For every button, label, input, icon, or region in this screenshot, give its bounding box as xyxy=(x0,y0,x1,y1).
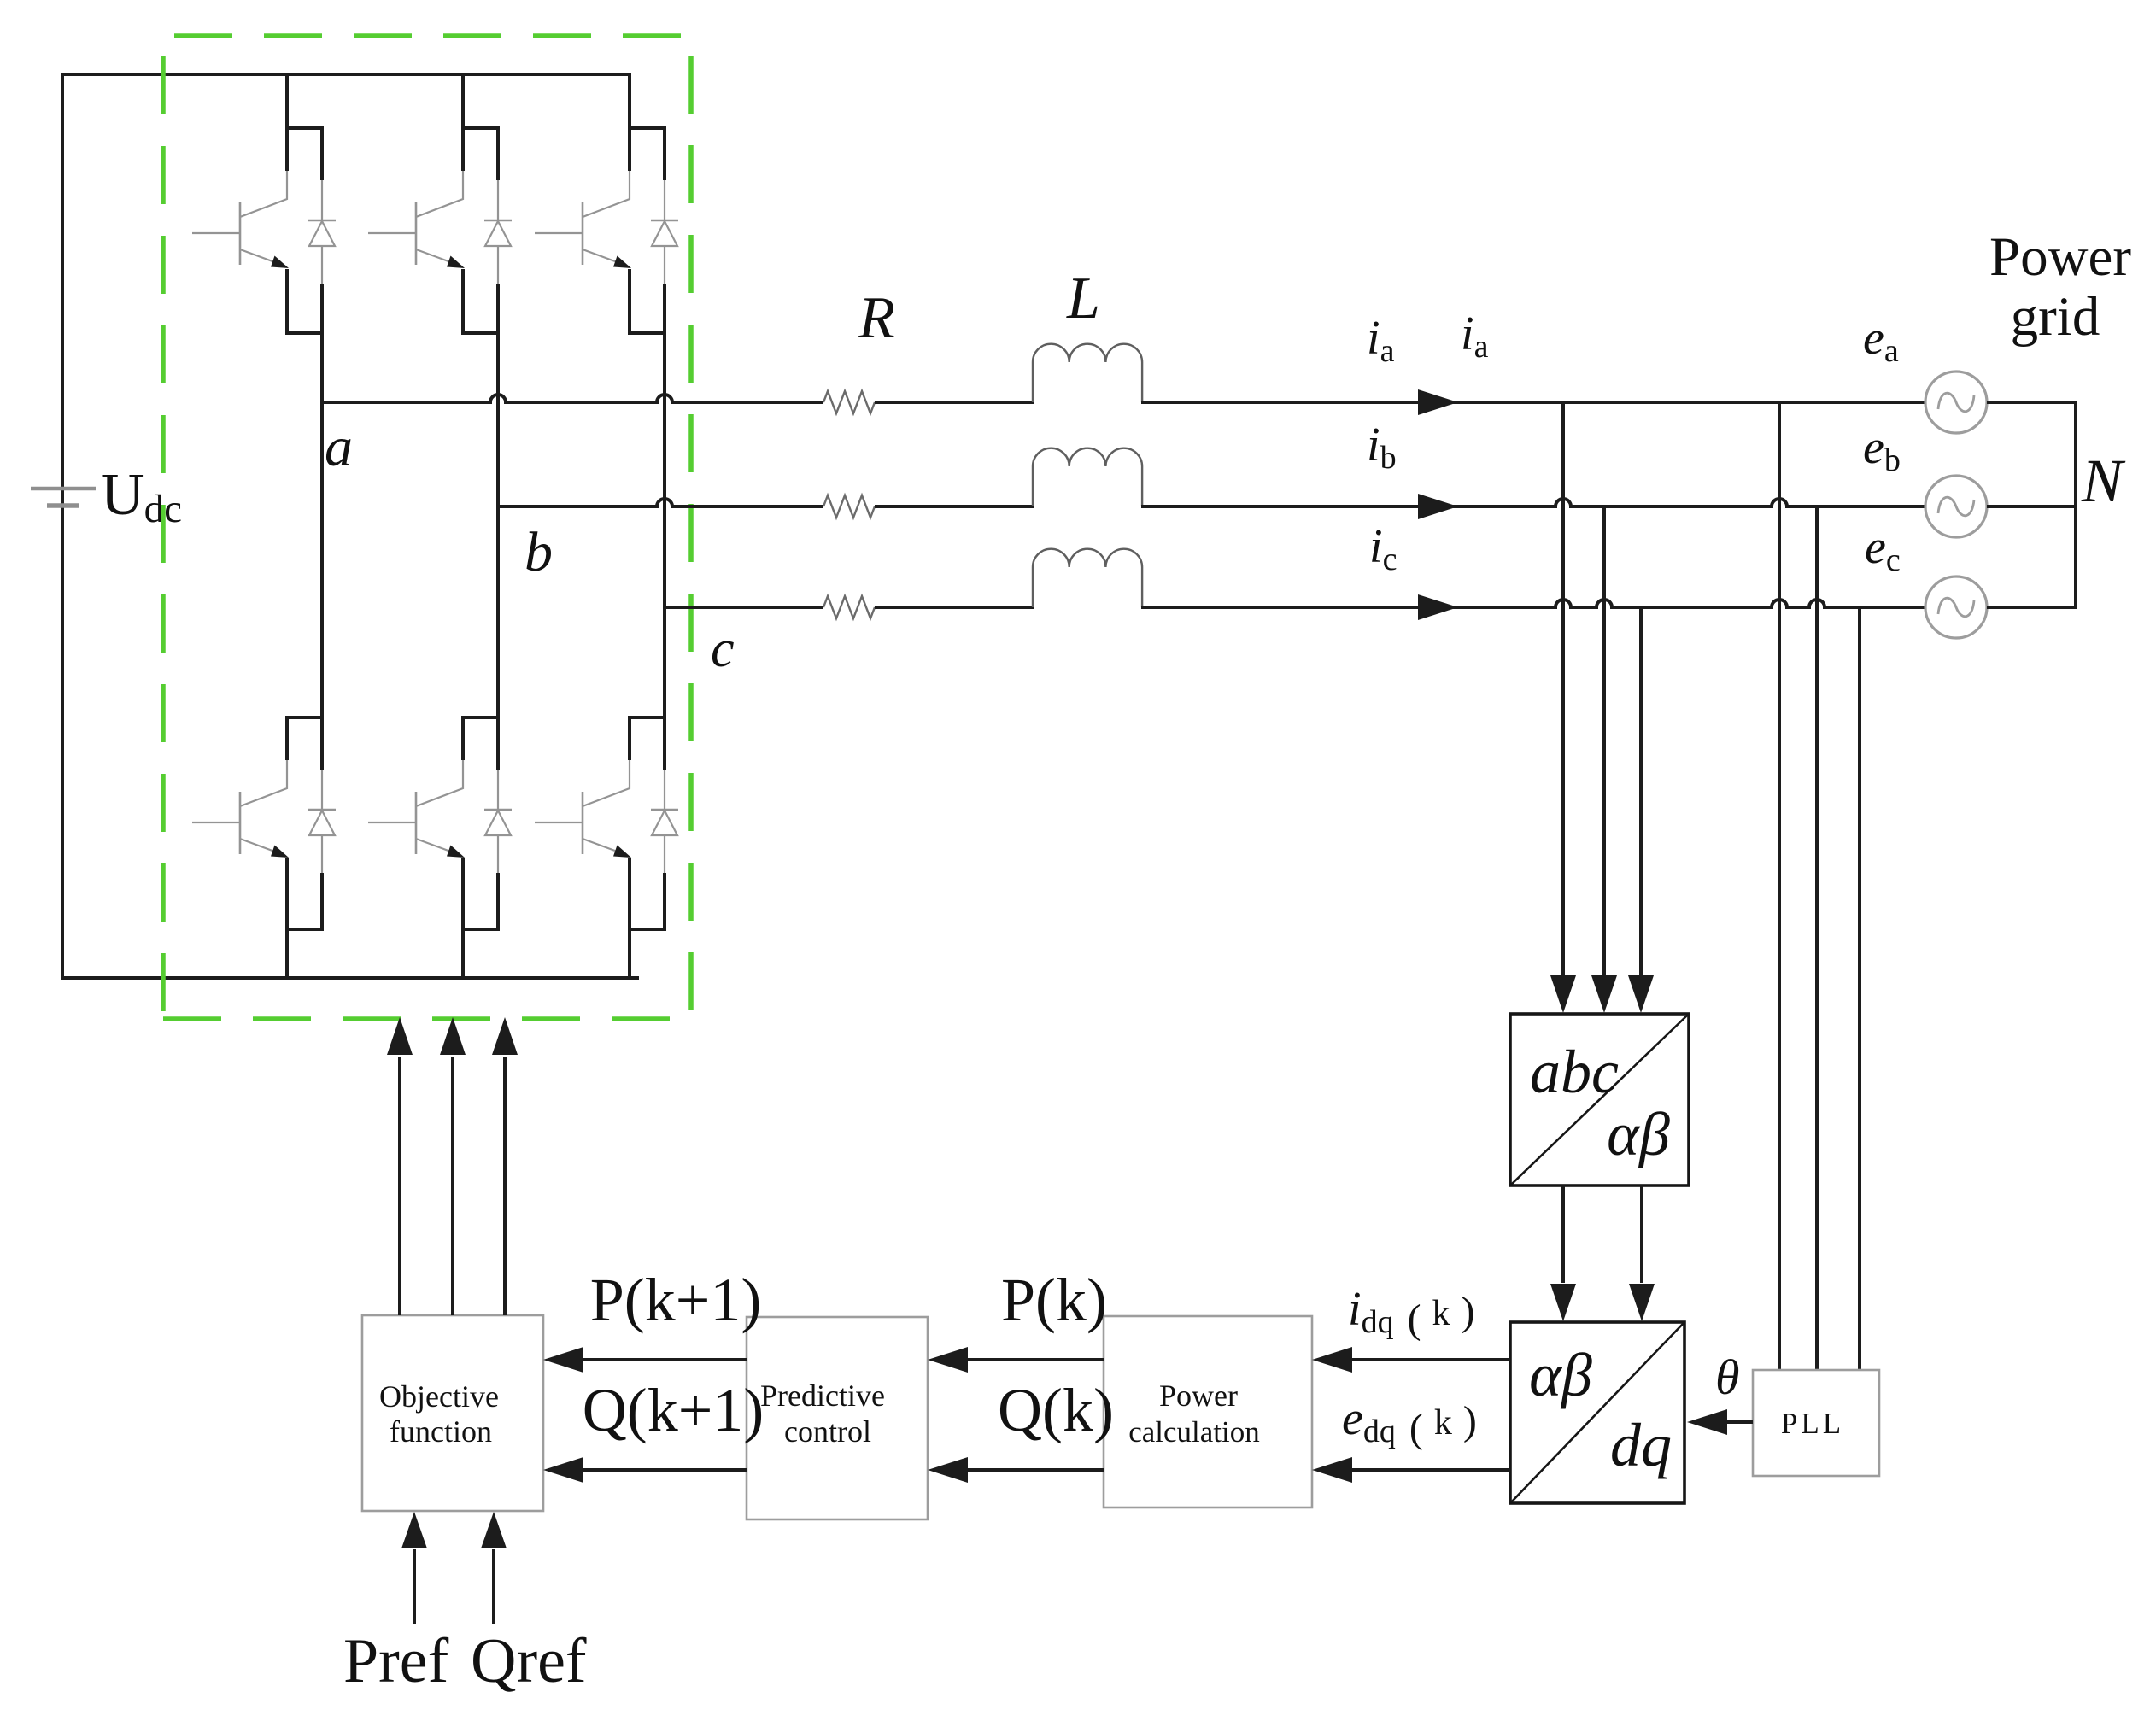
resistor R phase b xyxy=(823,495,875,518)
transistor Q1 (IGBT, upper) xyxy=(192,128,324,333)
resistor R phase a xyxy=(823,391,875,413)
arrow ib on phase b xyxy=(1418,494,1458,519)
wire Q4 emitter to DC- rail xyxy=(461,929,465,980)
label Power grid xyxy=(1989,226,2131,348)
arrow gate signal S3 to converter xyxy=(492,1017,518,1315)
wire DC+ rail drop to Q1 xyxy=(285,73,289,130)
label eb xyxy=(1863,421,1901,478)
node N label xyxy=(2081,447,2126,515)
wire ea voltage tap to PLL xyxy=(1778,402,1781,1370)
wire DC bottom rail xyxy=(61,976,639,980)
arrow gate signal S1 to converter xyxy=(387,1017,413,1315)
wire ea to N xyxy=(1987,401,2077,404)
arrow ic on phase c xyxy=(1418,594,1458,620)
wire DC+ rail drop to Q3 xyxy=(461,73,465,130)
wire phase a (L to grid source) xyxy=(1141,401,1925,404)
arrow Q(k+1) Predictive control to Objective function xyxy=(543,1457,747,1483)
svg-text:Power: Power xyxy=(1159,1379,1238,1413)
svg-text:dq: dq xyxy=(1610,1411,1672,1479)
transistor Q4 (IGBT, lower) xyxy=(368,717,500,929)
converter boundary (green dashed box) xyxy=(163,36,691,1019)
label ea xyxy=(1863,312,1899,369)
label P(k+1) xyxy=(590,1266,762,1334)
svg-text:calculation: calculation xyxy=(1128,1415,1260,1449)
svg-text:Power: Power xyxy=(1989,226,2131,288)
label edq(k) xyxy=(1342,1392,1477,1451)
diode D5 (antiparallel) xyxy=(651,180,678,333)
arrow alpha into dq block xyxy=(1550,1284,1576,1321)
arrow gate signal S2 to converter xyxy=(440,1017,466,1315)
block PLL xyxy=(1753,1370,1879,1476)
label Qref xyxy=(471,1626,587,1696)
AC source ec xyxy=(1925,577,1987,638)
svg-text:P(k+1): P(k+1) xyxy=(590,1266,762,1334)
svg-text:abc: abc xyxy=(1530,1038,1619,1106)
diode D3 (antiparallel) xyxy=(484,180,512,333)
label ib xyxy=(1367,419,1397,476)
label Q(k) xyxy=(998,1376,1114,1444)
svg-text:Pref: Pref xyxy=(343,1626,449,1696)
arrow P(k+1) Predictive control to Objective function xyxy=(543,1347,747,1373)
battery Udc long plate xyxy=(31,487,96,491)
label R xyxy=(858,285,895,351)
wire abc block to alphabeta/dq (alpha) xyxy=(1561,1185,1565,1283)
svg-text:αβ: αβ xyxy=(1607,1100,1670,1168)
svg-text:control: control xyxy=(784,1414,871,1449)
arrow Pref into Objective function xyxy=(401,1512,427,1624)
node a label xyxy=(325,416,353,478)
arrow edq(k) dq block to Power calculation xyxy=(1312,1457,1510,1483)
wire ic measurement tap xyxy=(1639,607,1643,978)
label Udc xyxy=(101,462,182,531)
block alphabeta/dq transform xyxy=(1510,1322,1684,1503)
inductor L phase a xyxy=(1033,344,1142,402)
wire phase b (L to grid source) xyxy=(1141,499,1925,506)
wire DC-link left rail (negative to positive loop) xyxy=(61,74,64,978)
wire phase a (inverter to resistor) xyxy=(322,395,823,402)
block Predictive control xyxy=(747,1317,928,1519)
diode D2 (antiparallel) xyxy=(308,770,336,929)
wire phase b (R to L) xyxy=(875,505,1034,508)
svg-text:Predictive: Predictive xyxy=(760,1379,885,1413)
svg-text:function: function xyxy=(390,1414,492,1449)
block abc/alphabeta transform xyxy=(1510,1014,1689,1185)
label ia (first) xyxy=(1367,312,1395,369)
wire phase c (L to grid source) xyxy=(1141,600,1925,607)
diode D6 (antiparallel) xyxy=(651,770,678,929)
transistor Q6 (IGBT, lower) xyxy=(535,717,666,929)
label ic xyxy=(1369,520,1397,577)
wire abc block to alphabeta/dq (beta) xyxy=(1640,1185,1643,1283)
svg-text:N: N xyxy=(2081,447,2126,515)
svg-text:Q(k): Q(k) xyxy=(998,1376,1114,1444)
inductor L phase b xyxy=(1033,448,1142,506)
svg-text:grid: grid xyxy=(2011,286,2100,348)
wire DC+ rail drop to Q5 xyxy=(628,73,631,130)
transistor Q2 (IGBT, lower) xyxy=(192,717,324,929)
label L xyxy=(1066,266,1100,331)
node b label xyxy=(524,521,553,583)
transistor Q5 (IGBT, upper) xyxy=(535,128,666,333)
svg-text:PLL: PLL xyxy=(1781,1407,1844,1440)
wire emitter-collector bracket Q3 xyxy=(461,331,500,335)
node c label xyxy=(711,620,735,678)
AC source eb xyxy=(1925,476,1987,537)
diode D1 (antiparallel) xyxy=(308,180,336,333)
svg-text:αβ: αβ xyxy=(1529,1341,1592,1409)
wire emitter-collector bracket Q6 xyxy=(628,928,666,931)
svg-text:Qref: Qref xyxy=(471,1626,587,1696)
label ia (second) xyxy=(1461,307,1489,365)
wire DC top rail xyxy=(61,73,630,76)
arrow Qref into Objective function xyxy=(481,1512,507,1624)
wire emitter-collector bracket Q2 xyxy=(285,928,324,931)
block Power calculation xyxy=(1104,1316,1312,1507)
AC source ea xyxy=(1925,372,1987,433)
label Q(k+1) xyxy=(583,1376,765,1444)
arrow Q(k) Power calculation to Predictive control xyxy=(928,1457,1104,1483)
wire Q2 emitter to DC- rail xyxy=(285,929,289,980)
wire phase b leg column xyxy=(496,333,500,717)
wire phase c leg column xyxy=(663,333,666,717)
arrow P(k) Power calculation to Predictive control xyxy=(928,1347,1104,1373)
arrow ia on phase a xyxy=(1418,389,1458,415)
wire phase c (R to L) xyxy=(875,606,1034,609)
svg-text:Q(k+1): Q(k+1) xyxy=(583,1376,765,1444)
label idq(k) xyxy=(1348,1283,1475,1342)
resistor R phase c xyxy=(823,596,875,618)
svg-text:θ: θ xyxy=(1715,1349,1740,1405)
arrow beta into dq block xyxy=(1629,1284,1655,1321)
battery Udc short plate xyxy=(47,503,79,508)
arrow idq(k) dq block to Power calculation xyxy=(1312,1347,1510,1373)
svg-text:b: b xyxy=(524,521,553,583)
wire eb voltage tap to PLL xyxy=(1815,506,1819,1370)
arrow ib into abc block xyxy=(1591,975,1617,1013)
svg-text:P(k): P(k) xyxy=(1001,1266,1107,1334)
wire N bus vertical xyxy=(2074,401,2077,609)
svg-text:c: c xyxy=(711,620,735,678)
diode D4 (antiparallel) xyxy=(484,770,512,929)
label P(k) xyxy=(1001,1266,1107,1334)
wire Q6 emitter to DC- rail xyxy=(628,929,631,980)
wire ib measurement tap xyxy=(1602,506,1606,978)
wire ia measurement tap xyxy=(1561,402,1565,978)
transistor Q3 (IGBT, upper) xyxy=(368,128,500,333)
wire phase a (R to L) xyxy=(875,401,1034,404)
label ec xyxy=(1865,521,1901,578)
wire emitter-collector bracket Q5 xyxy=(628,331,666,335)
arrow theta PLL to dq block xyxy=(1687,1409,1753,1435)
label Pref xyxy=(343,1626,449,1696)
wire eb to N xyxy=(1987,505,2077,508)
arrow ic into abc block xyxy=(1628,975,1654,1013)
svg-text:Objective: Objective xyxy=(379,1379,499,1414)
wire phase a leg column xyxy=(320,333,324,717)
wire phase b (inverter to resistor) xyxy=(498,499,823,506)
wire emitter-collector bracket Q4 xyxy=(461,928,500,931)
svg-text:L: L xyxy=(1066,266,1100,331)
wire emitter-collector bracket Q1 xyxy=(285,331,324,335)
wire ec voltage tap to PLL xyxy=(1858,607,1861,1370)
svg-text:a: a xyxy=(325,416,353,478)
inductor L phase c xyxy=(1033,549,1142,607)
arrow ia into abc block xyxy=(1550,975,1576,1013)
svg-text:R: R xyxy=(858,285,895,351)
label theta xyxy=(1715,1349,1740,1405)
block Objective function xyxy=(362,1315,543,1511)
wire phase c (inverter to resistor) xyxy=(665,606,823,609)
wire ec to N xyxy=(1987,606,2077,609)
